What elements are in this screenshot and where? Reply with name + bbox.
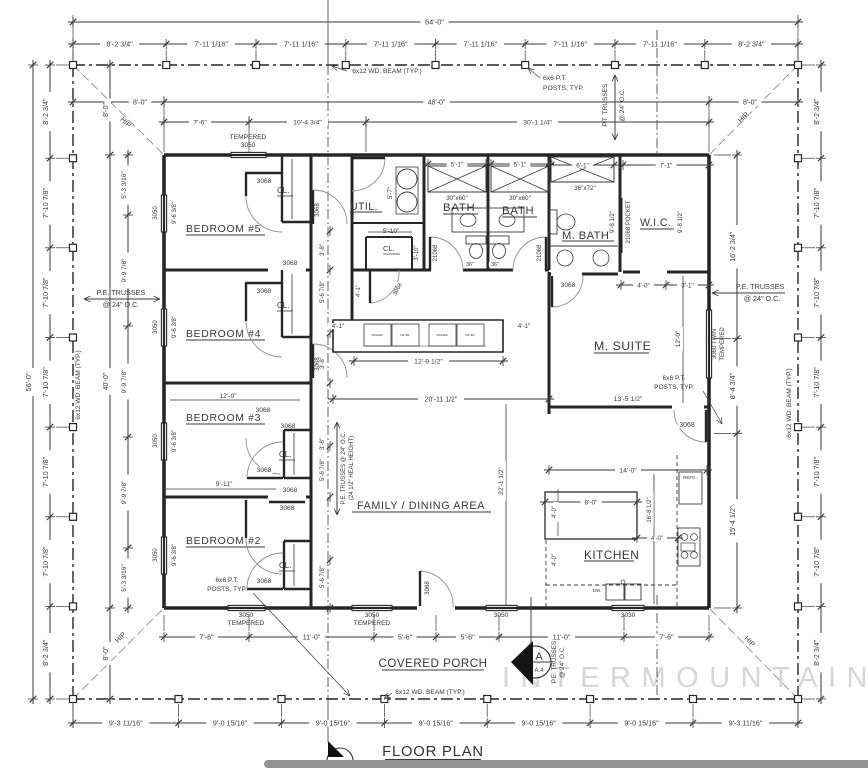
- svg-text:48'-0": 48'-0": [428, 99, 446, 106]
- svg-text:7'-1": 7'-1": [660, 162, 673, 169]
- svg-text:A: A: [535, 651, 543, 663]
- svg-text:POSTS, TYP.: POSTS, TYP.: [207, 586, 247, 593]
- svg-text:9'-0 15/16": 9'-0 15/16": [419, 718, 454, 727]
- svg-text:DW.: DW.: [593, 588, 602, 593]
- svg-text:3068: 3068: [257, 178, 272, 185]
- svg-text:6x6 P.T.: 6x6 P.T.: [663, 375, 686, 382]
- svg-text:P.T. TRUSSES: P.T. TRUSSES: [602, 83, 609, 126]
- svg-text:21068 POCKET: 21068 POCKET: [626, 200, 632, 243]
- svg-text:5'-3 3/16": 5'-3 3/16": [121, 171, 128, 199]
- svg-text:12'-9 1/2": 12'-9 1/2": [414, 358, 443, 365]
- svg-text:@ 24" O.C.: @ 24" O.C.: [103, 300, 140, 309]
- svg-text:3050: 3050: [365, 612, 380, 619]
- svg-text:3068: 3068: [314, 203, 321, 217]
- svg-text:3068: 3068: [257, 288, 272, 295]
- svg-text:KITCHEN: KITCHEN: [584, 548, 639, 562]
- svg-text:8'-0": 8'-0": [103, 103, 110, 117]
- svg-text:9'-8 1/2": 9'-8 1/2": [610, 211, 616, 233]
- svg-text:5'-6 7/8": 5'-6 7/8": [320, 566, 326, 588]
- svg-text:REFG.: REFG.: [683, 475, 697, 480]
- svg-text:3'-8": 3'-8": [320, 244, 326, 256]
- svg-text:15'-4 1/2": 15'-4 1/2": [728, 505, 737, 536]
- svg-text:6x12 WD. BEAM (TYP.): 6x12 WD. BEAM (TYP.): [395, 689, 465, 696]
- svg-text:22'-1 1/2": 22'-1 1/2": [498, 467, 505, 495]
- svg-text:(24 1/2" HEAL HEIGHT): (24 1/2" HEAL HEIGHT): [349, 436, 355, 500]
- svg-text:CL.: CL.: [277, 186, 289, 195]
- svg-text:TEMPERED: TEMPERED: [720, 327, 726, 361]
- svg-text:4'-0": 4'-0": [651, 536, 663, 542]
- svg-text:P.E. TRUSSES: P.E. TRUSSES: [97, 288, 146, 297]
- svg-text:5'-6 7/8": 5'-6 7/8": [320, 281, 326, 303]
- svg-text:BEDROOM #2: BEDROOM #2: [186, 536, 261, 547]
- svg-text:4'-1": 4'-1": [518, 323, 531, 330]
- svg-text:BEDROOM #5: BEDROOM #5: [186, 224, 261, 235]
- svg-text:@ 24" O.C.: @ 24" O.C.: [744, 294, 781, 303]
- svg-text:3050: 3050: [241, 142, 256, 149]
- svg-text:9'-3 11/16": 9'-3 11/16": [109, 718, 143, 727]
- svg-text:POSTS, TYP.: POSTS, TYP.: [654, 384, 694, 391]
- svg-text:6x12 WD. BEAM (TYP.): 6x12 WD. BEAM (TYP.): [786, 368, 793, 438]
- svg-text:40'-0": 40'-0": [103, 372, 110, 390]
- svg-text:7'-10 7/8": 7'-10 7/8": [41, 456, 50, 487]
- svg-text:3060 TWIN: 3060 TWIN: [712, 329, 718, 359]
- svg-text:@ 24" O.C.: @ 24" O.C.: [559, 646, 566, 678]
- svg-text:6x6 P.T.: 6x6 P.T.: [543, 75, 567, 82]
- svg-text:W.I.C.: W.I.C.: [640, 217, 671, 229]
- svg-text:P.E. TRUSSES: P.E. TRUSSES: [551, 641, 558, 683]
- svg-text:9'-0 15/16": 9'-0 15/16": [316, 718, 351, 727]
- svg-text:3050: 3050: [239, 612, 254, 619]
- svg-text:9'-0 15/16": 9'-0 15/16": [213, 718, 248, 727]
- svg-text:P.E. TRUSSES @ 24" O.C.: P.E. TRUSSES @ 24" O.C.: [341, 431, 347, 504]
- svg-text:9'-6 3/8": 9'-6 3/8": [172, 544, 178, 566]
- svg-text:7'-6": 7'-6": [193, 119, 207, 126]
- svg-text:8'-0": 8'-0": [743, 99, 757, 106]
- svg-text:9'-6 3/8": 9'-6 3/8": [172, 430, 178, 452]
- svg-text:8'-0": 8'-0": [133, 99, 147, 106]
- svg-text:7'-10 7/8": 7'-10 7/8": [41, 546, 50, 577]
- svg-text:20'-11 1/2": 20'-11 1/2": [425, 396, 458, 403]
- svg-text:CL.: CL.: [279, 450, 291, 459]
- svg-text:16'-2 3/4": 16'-2 3/4": [728, 231, 737, 262]
- svg-text:4'-1": 4'-1": [356, 285, 362, 297]
- svg-text:3068: 3068: [424, 581, 431, 595]
- svg-text:3050: 3050: [494, 612, 509, 619]
- svg-text:TEMPERED: TEMPERED: [354, 620, 391, 627]
- svg-text:36": 36": [491, 262, 499, 268]
- svg-text:56'-0": 56'-0": [24, 372, 33, 391]
- svg-text:7'-11 1/16": 7'-11 1/16": [194, 39, 228, 48]
- svg-text:8'-0": 8'-0": [585, 499, 599, 506]
- svg-text:CL.: CL.: [279, 561, 291, 570]
- svg-text:9'-3 11/16": 9'-3 11/16": [729, 718, 763, 727]
- svg-text:TEMPERED: TEMPERED: [228, 620, 265, 627]
- svg-text:3050: 3050: [153, 206, 159, 220]
- svg-text:3030: 3030: [621, 612, 636, 619]
- svg-text:8'-2 3/4": 8'-2 3/4": [106, 39, 133, 48]
- svg-text:DRYER: DRYER: [400, 333, 409, 337]
- svg-text:3068: 3068: [256, 407, 271, 414]
- svg-text:5'-6": 5'-6": [460, 632, 475, 641]
- svg-text:DRYER: DRYER: [465, 333, 474, 337]
- svg-text:7'-6": 7'-6": [199, 632, 214, 641]
- svg-text:30"x60": 30"x60": [509, 195, 531, 202]
- svg-text:M. SUITE: M. SUITE: [594, 339, 651, 353]
- svg-text:TEMPERED: TEMPERED: [230, 134, 267, 141]
- svg-text:3050: 3050: [153, 320, 159, 334]
- svg-text:9'-9 7/8": 9'-9 7/8": [121, 258, 128, 282]
- svg-text:9'-11": 9'-11": [216, 481, 233, 488]
- svg-text:12'-0": 12'-0": [219, 393, 237, 400]
- svg-text:4'-1": 4'-1": [332, 323, 345, 330]
- svg-text:3068: 3068: [679, 422, 695, 429]
- svg-text:4'-0": 4'-0": [552, 554, 558, 566]
- svg-text:3068: 3068: [280, 505, 295, 512]
- svg-text:36": 36": [466, 262, 474, 268]
- svg-text:5'-1": 5'-1": [451, 161, 464, 168]
- svg-text:7'-6": 7'-6": [659, 632, 674, 641]
- svg-text:3'-8": 3'-8": [320, 438, 326, 450]
- svg-text:8'-4 3/4": 8'-4 3/4": [728, 372, 737, 399]
- svg-text:5'-6 7/8": 5'-6 7/8": [320, 459, 326, 481]
- svg-text:A.4: A.4: [534, 668, 544, 674]
- svg-text:30'-1 1/4": 30'-1 1/4": [523, 119, 552, 126]
- svg-text:POSTS, TYP.: POSTS, TYP.: [543, 85, 584, 92]
- svg-text:64'-0": 64'-0": [425, 17, 444, 26]
- svg-text:5'-3 3/16": 5'-3 3/16": [121, 564, 128, 592]
- svg-text:14'-0": 14'-0": [619, 467, 637, 474]
- svg-text:WASHER: WASHER: [436, 333, 447, 337]
- svg-text:5'-1": 5'-1": [514, 161, 527, 168]
- svg-text:3050: 3050: [153, 434, 159, 448]
- svg-text:5'-10": 5'-10": [383, 228, 400, 235]
- svg-text:6'-1": 6'-1": [576, 162, 589, 169]
- svg-text:8'-2 3/4": 8'-2 3/4": [41, 98, 50, 125]
- svg-text:UTIL.: UTIL.: [350, 201, 378, 213]
- svg-text:4'-0": 4'-0": [637, 282, 650, 289]
- svg-text:9'-9 7/8": 9'-9 7/8": [121, 369, 128, 393]
- svg-text:9'-9 7/8": 9'-9 7/8": [121, 480, 128, 504]
- svg-text:9'-6 3/8": 9'-6 3/8": [172, 202, 178, 224]
- svg-text:BATH: BATH: [502, 205, 535, 217]
- svg-text:7'-10 7/8": 7'-10 7/8": [41, 367, 50, 398]
- svg-text:P.E. TRUSSES: P.E. TRUSSES: [736, 282, 785, 291]
- svg-text:4'-0": 4'-0": [552, 506, 558, 518]
- svg-text:M. BATH: M. BATH: [562, 230, 609, 242]
- svg-text:5'-7": 5'-7": [388, 187, 394, 199]
- svg-text:@ 24" O.C.: @ 24" O.C.: [619, 88, 626, 121]
- svg-text:6x6 P.T.: 6x6 P.T.: [216, 577, 239, 584]
- svg-text:7'-10 7/8": 7'-10 7/8": [812, 367, 821, 398]
- svg-text:3068: 3068: [257, 578, 272, 585]
- svg-text:9'-0 15/16": 9'-0 15/16": [624, 718, 659, 727]
- svg-text:6x12 WD. BEAM (TYP.): 6x12 WD. BEAM (TYP.): [352, 68, 422, 75]
- svg-text:3050: 3050: [153, 548, 159, 562]
- svg-text:COVERED PORCH: COVERED PORCH: [379, 657, 488, 670]
- svg-text:CL.: CL.: [277, 301, 289, 310]
- svg-text:7'-11 1/16": 7'-11 1/16": [463, 39, 497, 48]
- svg-text:30"x60": 30"x60": [446, 195, 468, 202]
- svg-text:7'-10 7/8": 7'-10 7/8": [41, 277, 50, 308]
- svg-text:8'-2 3/4": 8'-2 3/4": [41, 639, 50, 666]
- svg-text:9'-8 1/2": 9'-8 1/2": [678, 211, 684, 233]
- svg-text:7'-11 1/16": 7'-11 1/16": [553, 39, 587, 48]
- svg-text:8'-2 3/4": 8'-2 3/4": [812, 639, 821, 666]
- svg-text:7'-10 7/8": 7'-10 7/8": [812, 277, 821, 308]
- svg-text:36"x72": 36"x72": [574, 185, 596, 192]
- svg-text:3'-10": 3'-10": [414, 245, 420, 260]
- svg-text:9'-6 3/8": 9'-6 3/8": [172, 316, 178, 338]
- svg-text:11'-0": 11'-0": [553, 632, 571, 641]
- svg-text:7'-11 1/16": 7'-11 1/16": [284, 39, 318, 48]
- svg-text:10'-4 3/4": 10'-4 3/4": [293, 119, 322, 126]
- svg-text:3068: 3068: [283, 260, 298, 267]
- svg-text:WASHER: WASHER: [371, 333, 382, 337]
- svg-text:7'-10 7/8": 7'-10 7/8": [812, 187, 821, 218]
- svg-text:9'-0 15/16": 9'-0 15/16": [522, 718, 557, 727]
- svg-text:3'-8": 3'-8": [320, 357, 326, 369]
- svg-text:3068: 3068: [561, 282, 576, 289]
- svg-text:21068: 21068: [537, 244, 543, 261]
- svg-text:FLOOR PLAN: FLOOR PLAN: [382, 744, 484, 760]
- svg-text:7'-10 7/8": 7'-10 7/8": [812, 546, 821, 577]
- svg-text:CL.: CL.: [383, 244, 395, 253]
- svg-text:7'-11 1/16": 7'-11 1/16": [643, 39, 677, 48]
- svg-text:11'-0": 11'-0": [303, 632, 321, 641]
- svg-text:3068: 3068: [257, 467, 272, 474]
- svg-text:BEDROOM #3: BEDROOM #3: [186, 413, 261, 424]
- svg-text:8'-2 3/4": 8'-2 3/4": [738, 39, 765, 48]
- svg-text:3068: 3068: [283, 487, 298, 494]
- svg-text:21068: 21068: [433, 244, 439, 261]
- svg-text:13'-5 1/2": 13'-5 1/2": [614, 396, 643, 403]
- svg-text:FAMILY / DINING AREA: FAMILY / DINING AREA: [357, 500, 485, 512]
- svg-text:16'-8 1/2": 16'-8 1/2": [647, 497, 653, 522]
- svg-text:8'-2 3/4": 8'-2 3/4": [812, 98, 821, 125]
- svg-text:5'-6": 5'-6": [398, 632, 413, 641]
- svg-text:7'-10 7/8": 7'-10 7/8": [812, 456, 821, 487]
- svg-text:7'-11 1/16": 7'-11 1/16": [374, 39, 408, 48]
- svg-text:6x12 WD. BEAM (TYP.): 6x12 WD. BEAM (TYP.): [75, 350, 82, 420]
- svg-text:8'-0": 8'-0": [103, 646, 110, 660]
- svg-text:12'-0": 12'-0": [675, 330, 682, 347]
- svg-text:7'-10 7/8": 7'-10 7/8": [41, 187, 50, 218]
